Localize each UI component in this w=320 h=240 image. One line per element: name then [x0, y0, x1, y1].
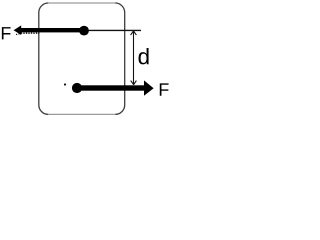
force arrow F2 head: [144, 80, 154, 95]
label F right: [160, 83, 169, 95]
rounded body box: left edge with corners: [39, 3, 49, 114]
force arrow F1 head: [14, 25, 22, 35]
force arrow F2 shaft (bottom, pointing right): [77, 85, 145, 90]
dotted fringe under F1 shaft: [16, 32, 40, 35]
dimension line d (vertical): [133, 31, 135, 85]
node dot at bottom force application point: [72, 83, 82, 93]
node dot at top force application point: [79, 26, 89, 36]
label d: [139, 48, 149, 64]
speck left of bottom node dot: [64, 83, 66, 85]
dimension arrowhead down: [131, 81, 137, 85]
rounded body box: bottom edge: [48, 113, 115, 115]
wire: top thin line from dot to right past box edge: [84, 29, 141, 31]
dimension arrowhead up: [131, 31, 137, 35]
rounded body box: right edge with corners: [115, 3, 125, 114]
force arrow F1 shaft (top, pointing left): [20, 28, 85, 32]
rounded body box: top edge: [48, 2, 115, 4]
label F left: [2, 27, 11, 39]
